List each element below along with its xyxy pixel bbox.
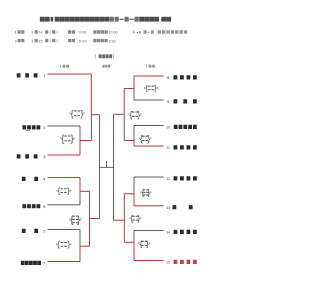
svg-text:}: }: [80, 108, 83, 119]
svg-text:}: }: [70, 134, 74, 145]
svg-text:9: 9: [167, 100, 169, 104]
svg-text:13: 13: [166, 206, 170, 210]
svg-text:12: 12: [166, 177, 170, 181]
svg-text:25: 25: [38, 39, 43, 43]
svg-text:24: 24: [38, 31, 43, 35]
svg-text:}: }: [146, 238, 149, 248]
svg-text:9:00: 9:00: [79, 39, 87, 43]
svg-text:6: 6: [43, 230, 45, 234]
svg-text:3: 3: [43, 155, 45, 159]
svg-text:8: 8: [167, 76, 169, 80]
svg-text:}: }: [147, 134, 150, 144]
svg-text:{: {: [140, 134, 143, 144]
svg-text:{: {: [61, 134, 65, 145]
svg-text:11: 11: [166, 146, 170, 150]
svg-text:{: {: [57, 240, 60, 249]
svg-text:{: {: [130, 109, 133, 119]
svg-text:10: 10: [166, 126, 170, 130]
svg-text:10:00: 10:00: [109, 31, 118, 35]
svg-text:}: }: [137, 214, 140, 223]
svg-text:}: }: [154, 84, 157, 93]
svg-text:9:00: 9:00: [79, 31, 87, 35]
svg-text:}: }: [137, 109, 140, 119]
svg-text:A: A: [132, 31, 135, 35]
svg-text:B: B: [139, 31, 142, 35]
svg-text:}: }: [68, 240, 71, 249]
svg-text:{: {: [140, 238, 143, 248]
svg-text:1: 1: [43, 74, 45, 78]
svg-text:2: 2: [43, 126, 45, 130]
svg-text:7: 7: [43, 262, 45, 266]
svg-text:4: 4: [43, 178, 45, 182]
svg-text:{: {: [145, 84, 148, 93]
svg-text:}: }: [67, 186, 70, 195]
svg-text:{: {: [131, 214, 134, 223]
svg-text:2: 2: [15, 39, 17, 43]
svg-text:9:30: 9:30: [109, 39, 116, 43]
svg-text:5: 5: [43, 205, 45, 209]
svg-text:15: 15: [166, 261, 170, 265]
svg-text:14: 14: [166, 231, 170, 235]
svg-text:{: {: [71, 108, 74, 119]
svg-text:{: {: [58, 186, 61, 195]
